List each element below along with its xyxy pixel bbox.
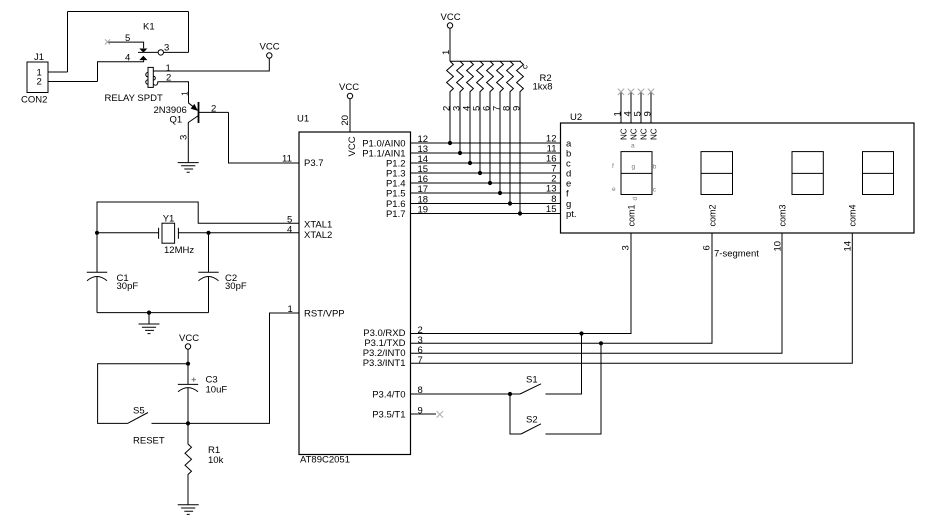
svg-text:com3: com3 <box>778 204 788 226</box>
svg-text:9: 9 <box>512 106 523 111</box>
switch S2 <box>521 424 541 434</box>
svg-text:VCC: VCC <box>339 82 359 93</box>
wire node to S5 left branch <box>98 364 188 424</box>
crystal Y1 <box>159 223 179 243</box>
svg-text:pt.: pt. <box>566 209 577 220</box>
wire relay pin4 <box>98 60 144 82</box>
svg-text:CON2: CON2 <box>21 95 47 106</box>
wire a <box>411 142 561 144</box>
svg-text:15: 15 <box>546 204 557 215</box>
wire relay pin3 riser <box>188 12 190 53</box>
resistor R2d <box>477 61 484 173</box>
capacitor C2 <box>198 271 218 273</box>
7-segment digit 1 <box>621 152 652 195</box>
svg-text:30pF: 30pF <box>225 281 247 292</box>
svg-text:10uF: 10uF <box>206 385 228 396</box>
svg-text:e: e <box>612 186 616 193</box>
U2 com pin numbers <box>621 241 854 252</box>
svg-text:b: b <box>653 164 657 171</box>
transistor Q1 <box>188 102 228 163</box>
wire U1 pin20 <box>349 99 351 132</box>
svg-text:2: 2 <box>166 73 171 84</box>
wire coil pin2 to Q1 <box>158 82 189 103</box>
wire com2 to P3.1/TXD <box>411 233 713 343</box>
wire com4 to P3.3/INT1 <box>411 233 853 363</box>
svg-text:Y1: Y1 <box>163 213 175 224</box>
display U2 <box>561 123 915 233</box>
svg-text:P1.5: P1.5 <box>386 189 406 200</box>
wire relay pin3 to riser <box>164 51 189 53</box>
wire coil pin1 to VCC <box>153 58 269 71</box>
resistor R2e <box>487 61 494 183</box>
7-segment digit 2 <box>701 152 733 195</box>
svg-text:P3.7: P3.7 <box>304 158 324 169</box>
IC U1 AT89C2051 <box>299 132 411 455</box>
U1 right pin numbers <box>418 134 429 417</box>
wire C2 top lead <box>208 233 210 272</box>
U2 com labels <box>627 204 858 226</box>
wire crystal bottom rail <box>97 312 209 314</box>
VCC symbol (R2) <box>447 23 452 28</box>
U1 right pin names <box>362 139 405 421</box>
node reset <box>186 421 190 425</box>
wire C1 top lead <box>96 233 98 272</box>
svg-text:1kx8: 1kx8 <box>533 82 553 93</box>
wire J1 pin1 riser <box>67 12 69 73</box>
capacitor C1 <box>87 271 107 273</box>
svg-text:Q1: Q1 <box>170 115 183 126</box>
svg-text:U1: U1 <box>297 114 309 125</box>
wire VCC to node <box>187 349 189 364</box>
svg-text:U2: U2 <box>570 112 582 123</box>
svg-text:VCC: VCC <box>260 42 280 53</box>
wire d <box>411 172 561 174</box>
resistor R2b <box>457 61 464 153</box>
svg-text:12MHz: 12MHz <box>164 245 194 256</box>
nodes R2 to bus <box>448 141 522 216</box>
svg-text:9: 9 <box>418 406 423 417</box>
capacitor C3 <box>187 364 189 385</box>
svg-text:S1: S1 <box>526 375 538 386</box>
svg-text:3: 3 <box>621 245 632 250</box>
switch S5 <box>128 413 149 424</box>
resistor R2g <box>507 61 514 203</box>
ground (crystal) <box>139 324 160 334</box>
resistor R1 <box>185 423 192 504</box>
U2 left pin numbers <box>546 134 557 216</box>
svg-text:RESET: RESET <box>133 436 165 447</box>
switch S1 <box>520 384 541 394</box>
svg-text:13: 13 <box>546 184 557 195</box>
svg-text:1: 1 <box>180 91 190 96</box>
wire pt <box>411 213 561 215</box>
svg-text:f: f <box>612 163 614 170</box>
resistor R2a <box>447 61 454 143</box>
svg-text:3: 3 <box>164 43 169 54</box>
wire top rail <box>68 11 189 13</box>
wire P3.4/T0 <box>411 393 521 395</box>
node P3.4 <box>508 392 512 396</box>
svg-text:RELAY SPDT: RELAY SPDT <box>105 93 163 104</box>
wire f <box>411 192 561 194</box>
svg-text:5: 5 <box>125 33 130 44</box>
7-segment digit 4 <box>863 152 894 195</box>
svg-text:7-segment: 7-segment <box>714 249 759 260</box>
svg-text:4: 4 <box>287 224 292 235</box>
svg-text:J1: J1 <box>34 52 44 63</box>
svg-text:3: 3 <box>179 135 190 140</box>
node C3 top <box>186 362 190 366</box>
node crystal right <box>206 231 210 235</box>
resistor R2h <box>517 61 524 213</box>
svg-text:NC: NC <box>650 128 659 140</box>
svg-text:NC: NC <box>640 128 649 140</box>
VCC symbol (relay) <box>267 53 272 58</box>
svg-text:XTAL1: XTAL1 <box>304 219 332 230</box>
relay pin5 no-connect X <box>105 39 110 44</box>
R2 bus bar <box>450 60 521 62</box>
U2 top pins 1,4,5,9 NC <box>621 92 651 123</box>
wire reset node to RST/VPP <box>188 313 299 423</box>
svg-text:S5: S5 <box>133 406 145 417</box>
svg-text:g: g <box>632 164 636 171</box>
7-segment digit 3 <box>792 152 823 195</box>
resistor R2f <box>497 61 504 193</box>
svg-text:RST/VPP: RST/VPP <box>304 309 345 320</box>
wire P3.4 node down to S2 <box>510 394 521 434</box>
svg-text:11: 11 <box>282 154 292 165</box>
wire com3 to P3.2/INT0 <box>411 233 783 353</box>
R2 pin numbers <box>442 106 523 111</box>
wire c <box>411 162 561 164</box>
svg-text:9: 9 <box>643 111 654 116</box>
resistor R2c <box>467 61 474 163</box>
wire b <box>411 152 561 154</box>
node crystal left <box>95 231 99 235</box>
svg-text:NC: NC <box>630 128 639 140</box>
svg-text:1: 1 <box>441 50 452 55</box>
relay pin3 circle <box>158 50 163 55</box>
connector J1 <box>27 62 98 93</box>
wire VCC to bus <box>449 28 451 61</box>
P3.5 no-connect X <box>437 411 443 417</box>
wire com1 to P3.0/RXD <box>411 233 632 334</box>
svg-text:VCC: VCC <box>441 12 461 23</box>
svg-text:com1: com1 <box>627 204 637 226</box>
svg-text:P3.3/INT1: P3.3/INT1 <box>363 358 406 369</box>
svg-text:P1.7: P1.7 <box>386 209 406 220</box>
svg-text:K1: K1 <box>143 22 155 33</box>
ground (R1) <box>178 505 199 515</box>
wire relay pin5 <box>109 42 144 48</box>
svg-text:f: f <box>566 189 569 200</box>
relay contact arrow down <box>139 49 147 53</box>
wire P3.5/T1 stub <box>411 413 437 415</box>
svg-text:6: 6 <box>702 245 713 250</box>
svg-text:30pF: 30pF <box>117 281 139 292</box>
U1 left pin names <box>304 158 345 320</box>
wire crystal top rail <box>97 202 299 233</box>
svg-text:com2: com2 <box>708 204 718 226</box>
wire XTAL2 line <box>97 232 299 234</box>
svg-text:P3.5/T1: P3.5/T1 <box>372 410 405 421</box>
svg-text:10k: 10k <box>208 455 224 466</box>
svg-text:S2: S2 <box>526 415 538 426</box>
wire g <box>411 203 561 205</box>
svg-text:com4: com4 <box>848 204 858 226</box>
svg-text:NC: NC <box>620 128 629 140</box>
ground (Q1) <box>178 163 199 173</box>
svg-text:20: 20 <box>340 115 351 126</box>
svg-text:7: 7 <box>418 355 423 366</box>
svg-text:2: 2 <box>37 77 42 88</box>
svg-text:1: 1 <box>288 304 293 315</box>
U2 left pin letters <box>566 139 577 221</box>
relay coil K1 <box>146 67 158 87</box>
wire Q1 base to U1 P3.7 <box>229 112 300 163</box>
node crystal ground <box>147 311 151 315</box>
relay contact arrow up <box>139 56 147 60</box>
svg-text:2: 2 <box>211 104 216 115</box>
svg-text:d: d <box>632 197 639 201</box>
svg-text:VCC: VCC <box>347 136 358 156</box>
svg-text:4: 4 <box>125 53 130 64</box>
svg-text:AT89C2051: AT89C2051 <box>300 455 350 466</box>
wire to crystal ground <box>148 313 150 324</box>
svg-text:VCC: VCC <box>179 333 199 344</box>
svg-text:XTAL2: XTAL2 <box>304 230 332 241</box>
VCC symbol (reset) <box>185 344 190 349</box>
relay common contact wire <box>138 51 158 53</box>
VCC symbol (U1 pin20) <box>347 93 352 98</box>
svg-text:a: a <box>631 143 635 150</box>
node S2 top <box>599 341 603 345</box>
svg-text:P3.4/T0: P3.4/T0 <box>372 390 405 401</box>
wire e <box>411 182 561 184</box>
node S1 top <box>579 331 583 335</box>
